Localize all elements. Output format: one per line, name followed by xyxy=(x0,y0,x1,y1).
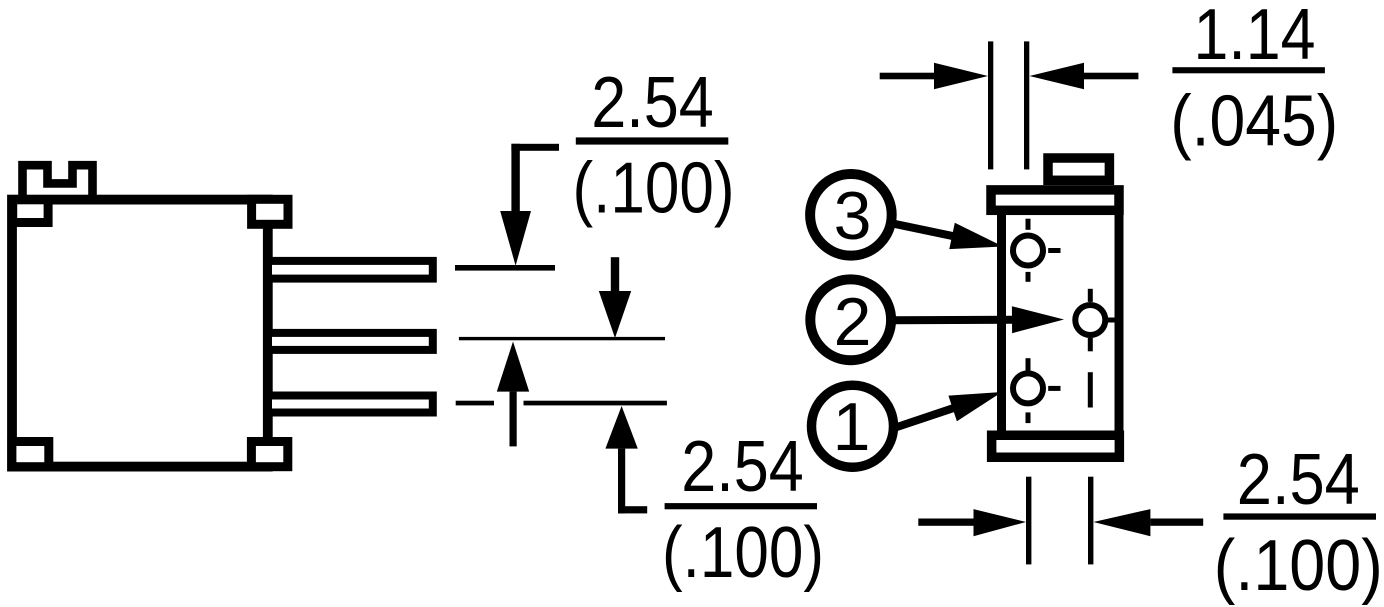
top dimension right arrow xyxy=(1029,63,1084,89)
pin 2 (middle lead, left view) xyxy=(268,333,433,350)
dimension leader elbow (top 2.54) xyxy=(511,144,559,151)
bottom dimension right arrow xyxy=(1093,509,1150,536)
leader from 1 to pin 1 xyxy=(894,408,955,428)
dimension arrow down to pin2 line xyxy=(611,257,619,295)
left view: trimmer body outline xyxy=(12,200,268,467)
left view: corner standoff top-left xyxy=(13,200,48,223)
right view: top cap xyxy=(991,190,1119,210)
left view: corner standoff bottom-left xyxy=(12,442,49,467)
svg-text:(.100): (.100) xyxy=(573,149,735,229)
pin 1 centerline dashes xyxy=(1026,358,1031,370)
svg-text:(.100): (.100) xyxy=(662,513,824,593)
svg-text:3: 3 xyxy=(834,178,872,254)
leader from 3 to pin 3 xyxy=(893,224,954,237)
pin 2 hole (right view) xyxy=(1075,305,1105,335)
svg-text:2: 2 xyxy=(834,284,872,360)
svg-text:2.54: 2.54 xyxy=(1237,440,1360,520)
pin 1 hole (right view) xyxy=(1013,373,1043,403)
pin 3 (bottom lead, left view) xyxy=(268,396,433,413)
svg-text:2.54: 2.54 xyxy=(681,427,804,507)
fraction bar (upper 2.54/(.100)) xyxy=(576,137,729,144)
callout circle 2 xyxy=(810,279,891,360)
pin 3 hole (right view) xyxy=(1013,236,1043,266)
leader from 2 to pin 2 xyxy=(893,316,1014,325)
bottom dimension extension lines (2.54 pin spacing) xyxy=(1026,477,1031,565)
fraction bar (lower-left 2.54/(.100)) xyxy=(665,503,817,509)
svg-text:(.100): (.100) xyxy=(1214,526,1383,606)
svg-text:2.54: 2.54 xyxy=(591,63,714,143)
dimension arrow down to pin1 line xyxy=(500,211,531,266)
dimension tick line at pin1 level xyxy=(455,265,555,271)
left view: corner standoff bottom-right xyxy=(251,442,287,467)
svg-text:(.045): (.045) xyxy=(1170,82,1338,162)
callout circle 3 xyxy=(810,174,892,256)
pin 2 centerline dashes xyxy=(1088,289,1093,302)
left view: trimmer body top tab (screw slot) xyxy=(23,165,93,200)
pin 3 centerline dashes xyxy=(1026,219,1031,230)
bottom dimension left arrow xyxy=(918,519,973,526)
fraction bar (lower-right 2.54/(.100)) xyxy=(1223,513,1376,519)
pin 1 (top lead, left view) xyxy=(268,261,433,279)
dimension line at pin2 level xyxy=(459,337,665,340)
top dimension left arrow xyxy=(880,73,938,80)
fraction bar (1.14/(.045)) xyxy=(1172,67,1325,73)
svg-text:1.14: 1.14 xyxy=(1194,0,1316,75)
right view: body outline xyxy=(1002,200,1120,445)
right view: bottom cap xyxy=(992,435,1120,457)
callout circle 1 xyxy=(812,385,894,467)
right view: top knob xyxy=(1048,158,1109,180)
left view: corner standoff top-right xyxy=(252,199,288,224)
dimension line at pin3 level (two segments) xyxy=(456,401,494,406)
dimension arrow up to pin2 line xyxy=(497,342,529,392)
dimension arrow up to pin3 line xyxy=(605,406,637,449)
svg-text:1: 1 xyxy=(833,389,871,465)
top dimension extension lines (1.14) xyxy=(988,41,993,169)
